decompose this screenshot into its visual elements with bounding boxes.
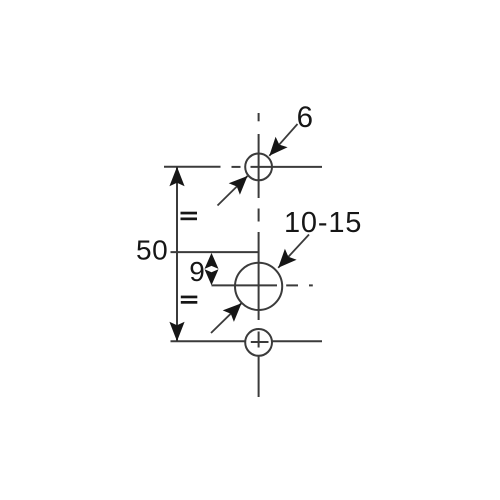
wire vertical centerline dash between holes: [258, 209, 260, 222]
wire vertical centerline below bottom hole: [258, 356, 260, 397]
wire lower 9 dimension line / crosshair through middle hole: [212, 284, 278, 286]
wire horizontal centerline dash right of middle hole: [286, 284, 298, 286]
node top hole circle (diameter 6): [245, 154, 272, 181]
wire horizontal centerline dot right of middle hole: [309, 284, 313, 286]
wire horizontal centerline dash left of top hole: [232, 166, 241, 168]
svg-text:50: 50: [136, 234, 168, 265]
wire top extension line: [164, 166, 221, 168]
wire vertical crosshair through middle hole: [258, 232, 260, 320]
arrowhead of lower-left leader at top hole: [229, 176, 248, 195]
equality mark upper: [181, 212, 198, 215]
svg-text:6: 6: [297, 101, 313, 134]
wire horizontal 50 tick line: [171, 251, 259, 253]
wire horizontal crosshair through top hole: [251, 166, 323, 168]
arrowhead of leader 6: [269, 137, 287, 156]
node middle hole circle (diameter 10-15): [235, 263, 282, 310]
arrowhead of leader 10-15: [278, 249, 296, 268]
wire vertical crosshair inside bottom hole: [258, 332, 260, 348]
wire leader line lower-left of middle hole: [211, 303, 242, 333]
svg-text:10-15: 10-15: [284, 207, 362, 239]
arrowhead down of 50 dimension: [169, 322, 184, 342]
arrowhead up of 50 dimension: [169, 167, 184, 187]
wire leader line lower-left of top hole: [218, 176, 248, 206]
arrowhead up of 9 dimension: [205, 253, 219, 269]
wire vertical crosshair through top hole: [258, 134, 260, 198]
svg-text:9: 9: [189, 256, 205, 287]
arrowhead of lower-left leader at middle hole: [223, 303, 242, 322]
wire vertical dimension line 50: [176, 167, 178, 342]
arrowhead down of 9 dimension: [205, 269, 219, 285]
wire leader line for label 6: [269, 124, 297, 156]
wire vertical centerline dash above top hole: [258, 113, 260, 121]
equality mark lower: [181, 296, 198, 299]
wire bottom horizontal line through lower holes: [171, 340, 323, 342]
wire leader line for label 10-15: [278, 235, 309, 268]
wire horizontal crosshair inside bottom hole: [251, 341, 269, 343]
node bottom hole circle: [245, 329, 272, 356]
